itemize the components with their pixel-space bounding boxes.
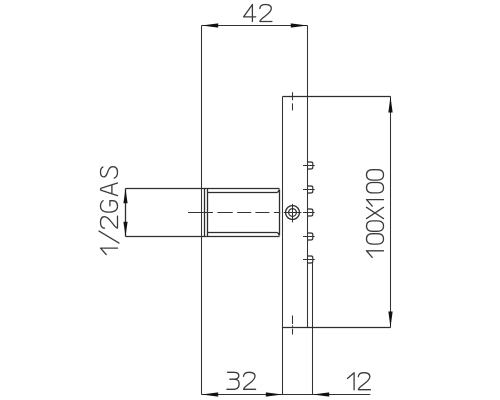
arrow dim42 left bbox=[202, 23, 219, 27]
screw hole circle (outer) bbox=[286, 206, 300, 220]
text 42 (top dimension) bbox=[244, 5, 272, 22]
plate top edge bbox=[283, 96, 391, 98]
vertical centerline through screw hole circle bbox=[292, 204, 294, 223]
arrow gas down bbox=[123, 222, 127, 237]
arrow dim42 right bbox=[291, 23, 308, 27]
nozzle nub 4 bbox=[308, 233, 313, 240]
text 12 (bottom right dimension) bbox=[348, 373, 371, 390]
nozzle nub 2 tick bbox=[303, 189, 315, 191]
arrow gas up bbox=[123, 189, 127, 204]
arrow dim100 top bbox=[388, 97, 392, 113]
text 100X100 (right dimension, rotated) bbox=[367, 170, 384, 258]
centerline through screw hole circle bbox=[284, 212, 302, 214]
nozzle nub 4 tick bbox=[303, 236, 315, 238]
end chamfer bbox=[278, 190, 280, 236]
plate left-face vertical line V3 bbox=[282, 97, 284, 395]
nozzle nub 1 tick bbox=[303, 165, 315, 167]
arrow dim100 bottom bbox=[388, 312, 392, 328]
head right-face / extension vertical line V2 bbox=[307, 26, 309, 328]
threaded stub outline bbox=[126, 189, 280, 237]
nozzle nub 3 bbox=[308, 209, 313, 216]
nozzle nub 1 bbox=[308, 162, 313, 169]
thread runout double line bbox=[205, 189, 208, 237]
nozzle nub row bbox=[308, 162, 313, 263]
wall reference vertical line V1 bbox=[201, 26, 203, 395]
nozzle nub 5 bbox=[308, 256, 313, 263]
nozzle nub 3 tick bbox=[303, 212, 315, 214]
arrow dim32 left bbox=[202, 392, 219, 396]
arrow dim32 right bbox=[266, 392, 283, 396]
dimension texts drawn as single-stroke CAD glyphs bbox=[99, 5, 384, 390]
text 32 (bottom left dimension) bbox=[227, 372, 256, 389]
nozzle nub 5 tick bbox=[303, 259, 315, 261]
arrowheads bbox=[123, 23, 392, 396]
arrow dim12 right (outside) bbox=[313, 392, 330, 396]
plate bottom edge bbox=[283, 327, 391, 329]
text 1/2GAS (stub thread label, rotated) bbox=[99, 167, 119, 255]
bottom mounting hole centerline bbox=[292, 316, 294, 335]
dimension line 42 (top) bbox=[202, 25, 308, 27]
nozzle-tip extension vertical line V4 bbox=[312, 263, 314, 395]
screw hole circle (inner) bbox=[289, 209, 297, 217]
top mounting hole centerline bbox=[292, 92, 294, 110]
thread minor diameter lines bbox=[208, 193, 278, 233]
nozzle nub 2 bbox=[308, 186, 313, 193]
horizontal centerline of stub bbox=[188, 204, 301, 223]
dimension line bottom (32 / 12) bbox=[202, 394, 371, 396]
dimension line 100X100 (right) bbox=[390, 97, 392, 328]
